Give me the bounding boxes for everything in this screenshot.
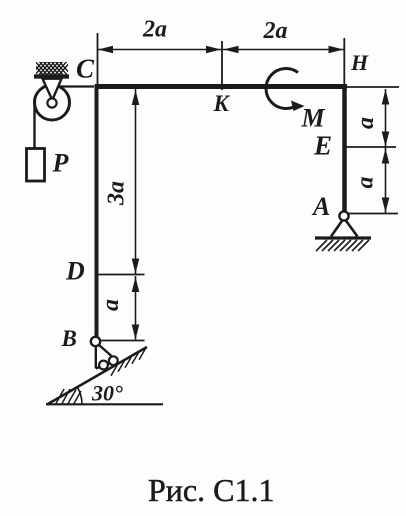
svg-text:H: H <box>350 50 369 75</box>
svg-text:A: A <box>311 192 330 221</box>
svg-text:30°: 30° <box>91 381 123 406</box>
svg-text:2a: 2a <box>263 18 288 44</box>
svg-text:P: P <box>52 149 70 178</box>
svg-text:a: a <box>353 117 379 129</box>
svg-text:K: K <box>213 91 231 116</box>
svg-text:3a: 3a <box>104 181 130 206</box>
svg-text:B: B <box>61 326 77 351</box>
svg-text:M: M <box>301 104 326 133</box>
svg-text:Рис. С1.1: Рис. С1.1 <box>148 472 274 508</box>
svg-text:a: a <box>98 299 124 311</box>
svg-text:a: a <box>353 177 379 189</box>
svg-text:D: D <box>65 257 85 286</box>
svg-text:E: E <box>313 131 332 161</box>
svg-text:2a: 2a <box>142 17 167 43</box>
svg-text:C: C <box>76 54 95 84</box>
